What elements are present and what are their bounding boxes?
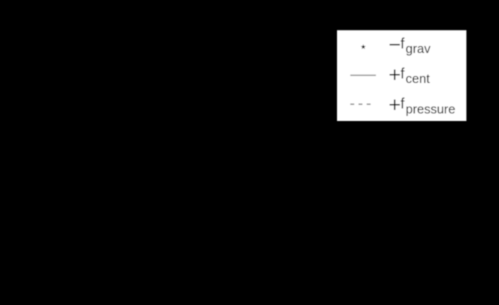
svg-text:cent: cent bbox=[406, 71, 431, 86]
svg-text:pressure: pressure bbox=[406, 101, 456, 116]
svg-text:grav: grav bbox=[406, 41, 431, 56]
svg-text:+: + bbox=[389, 94, 401, 117]
svg-text:−: − bbox=[389, 34, 401, 57]
svg-text:+: + bbox=[389, 64, 401, 87]
